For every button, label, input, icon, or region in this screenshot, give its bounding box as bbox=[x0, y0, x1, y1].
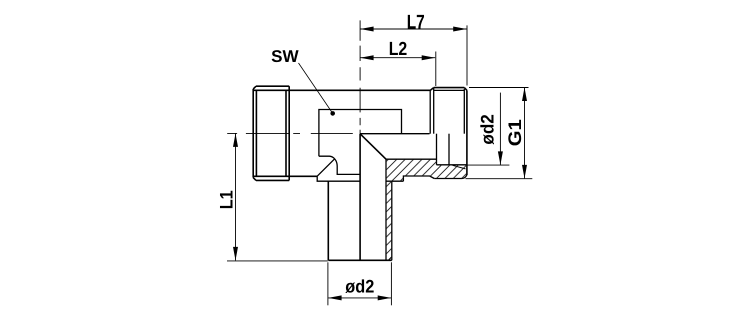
svg-text:SW: SW bbox=[271, 47, 299, 66]
dimension L7 line bbox=[360, 28, 467, 30]
arrowhead G1 top bbox=[522, 88, 527, 102]
leader dot bbox=[330, 111, 335, 116]
leader line SW bbox=[299, 63, 333, 113]
standpipe leg left edge bbox=[327, 181, 329, 260]
horizontal bore bottom edge bbox=[386, 158, 437, 160]
leg bottom right chamfer bbox=[388, 257, 392, 260]
svg-text:L2: L2 bbox=[389, 39, 408, 60]
svg-text:G1: G1 bbox=[505, 119, 525, 146]
extension line leg bottom left bbox=[227, 260, 328, 262]
arrowhead G1 bottom bbox=[522, 165, 527, 179]
svg-text:L7: L7 bbox=[407, 11, 425, 33]
leg bore edge bbox=[385, 159, 387, 260]
shoulder bottom right half bbox=[386, 180, 403, 182]
section cut edge horizontal at axis bbox=[360, 133, 429, 135]
shoulder step right bbox=[403, 176, 434, 181]
arrowhead L7 left bbox=[360, 27, 374, 32]
svg-text:ød2: ød2 bbox=[345, 277, 374, 297]
standpipe leg bottom edge bbox=[328, 259, 392, 261]
left fillet and shoulder bbox=[317, 156, 360, 181]
body top edge bbox=[254, 89, 431, 91]
inner cone transition bbox=[360, 134, 386, 159]
svg-text:L1: L1 bbox=[217, 190, 237, 209]
extension line G1 top bbox=[469, 87, 529, 89]
vertical centerline bbox=[359, 20, 361, 133]
right threaded port top half bbox=[430, 88, 467, 175]
arrowhead L2 left bbox=[360, 55, 374, 60]
right od2 dimension line bbox=[499, 93, 501, 165]
arrowhead right od2 down bbox=[498, 151, 503, 165]
extension line L2 right bbox=[435, 52, 437, 87]
arrowhead bottom od2 right bbox=[378, 295, 392, 300]
right port bore step verticals bbox=[437, 134, 467, 169]
leg outer wall right bbox=[391, 181, 393, 260]
extension line L7 right bbox=[466, 25, 468, 85]
body bottom edge bbox=[254, 175, 318, 177]
extension line G1 bottom bbox=[466, 178, 533, 180]
section cut edge vertical at axis bbox=[359, 134, 361, 260]
left threaded port outline bbox=[253, 86, 289, 180]
dimension L1 line bbox=[235, 133, 237, 260]
arrowhead bottom od2 left bbox=[328, 295, 342, 300]
right od2 extension line bbox=[467, 164, 510, 166]
arrowhead L1 top bbox=[233, 133, 238, 147]
arrowhead L1 bottom bbox=[233, 247, 238, 261]
arrowhead L7 right bbox=[453, 27, 467, 32]
arrowhead L2 right bbox=[422, 55, 436, 60]
hatched section area bbox=[386, 159, 467, 260]
dimension bottom od2 line bbox=[328, 297, 391, 299]
dimension G1 line bbox=[524, 88, 526, 179]
SW flat rectangle bbox=[319, 110, 402, 157]
right thread bottom OD in section bbox=[434, 175, 467, 179]
bottom diameter extension lines bbox=[327, 262, 329, 305]
svg-text:ød2: ød2 bbox=[478, 114, 498, 145]
dimension L2 line bbox=[360, 57, 435, 59]
horizontal centerline bbox=[227, 132, 353, 134]
